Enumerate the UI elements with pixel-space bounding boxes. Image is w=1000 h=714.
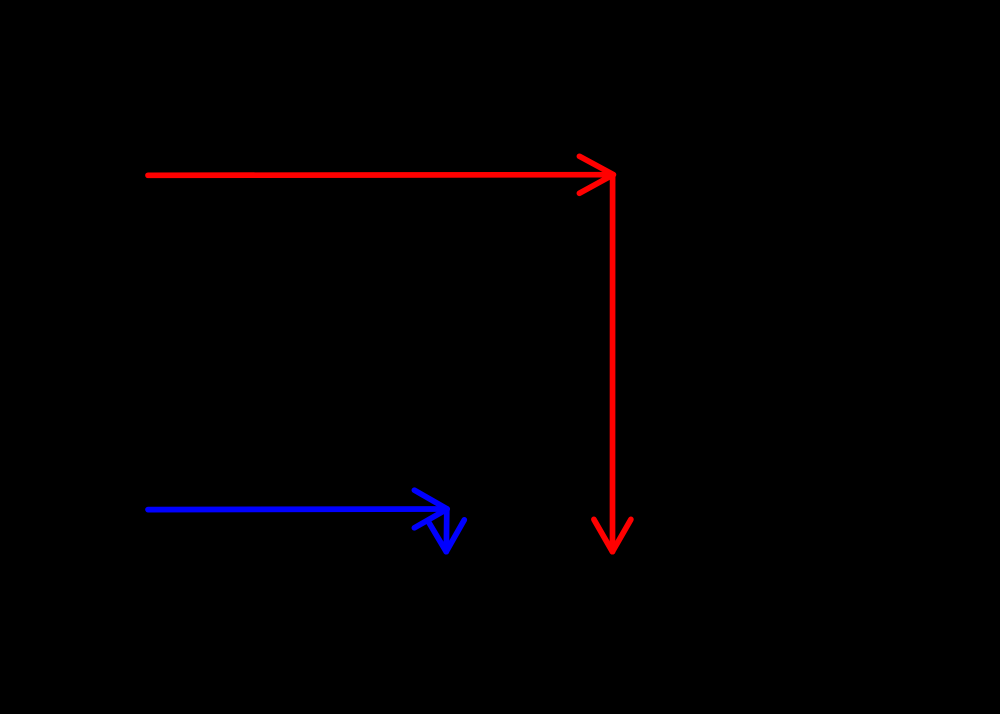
red horizontal arrow shaft	[148, 172, 613, 178]
red vertical arrow shaft	[610, 175, 616, 552]
blue vertical arrow shaft	[443, 509, 449, 552]
red horizontal arrow head	[579, 156, 613, 193]
blue horizontal arrow head	[414, 490, 447, 528]
blue horizontal arrow shaft	[148, 506, 447, 512]
blue vertical arrow head	[428, 520, 464, 552]
red vertical arrow head	[594, 519, 631, 551]
